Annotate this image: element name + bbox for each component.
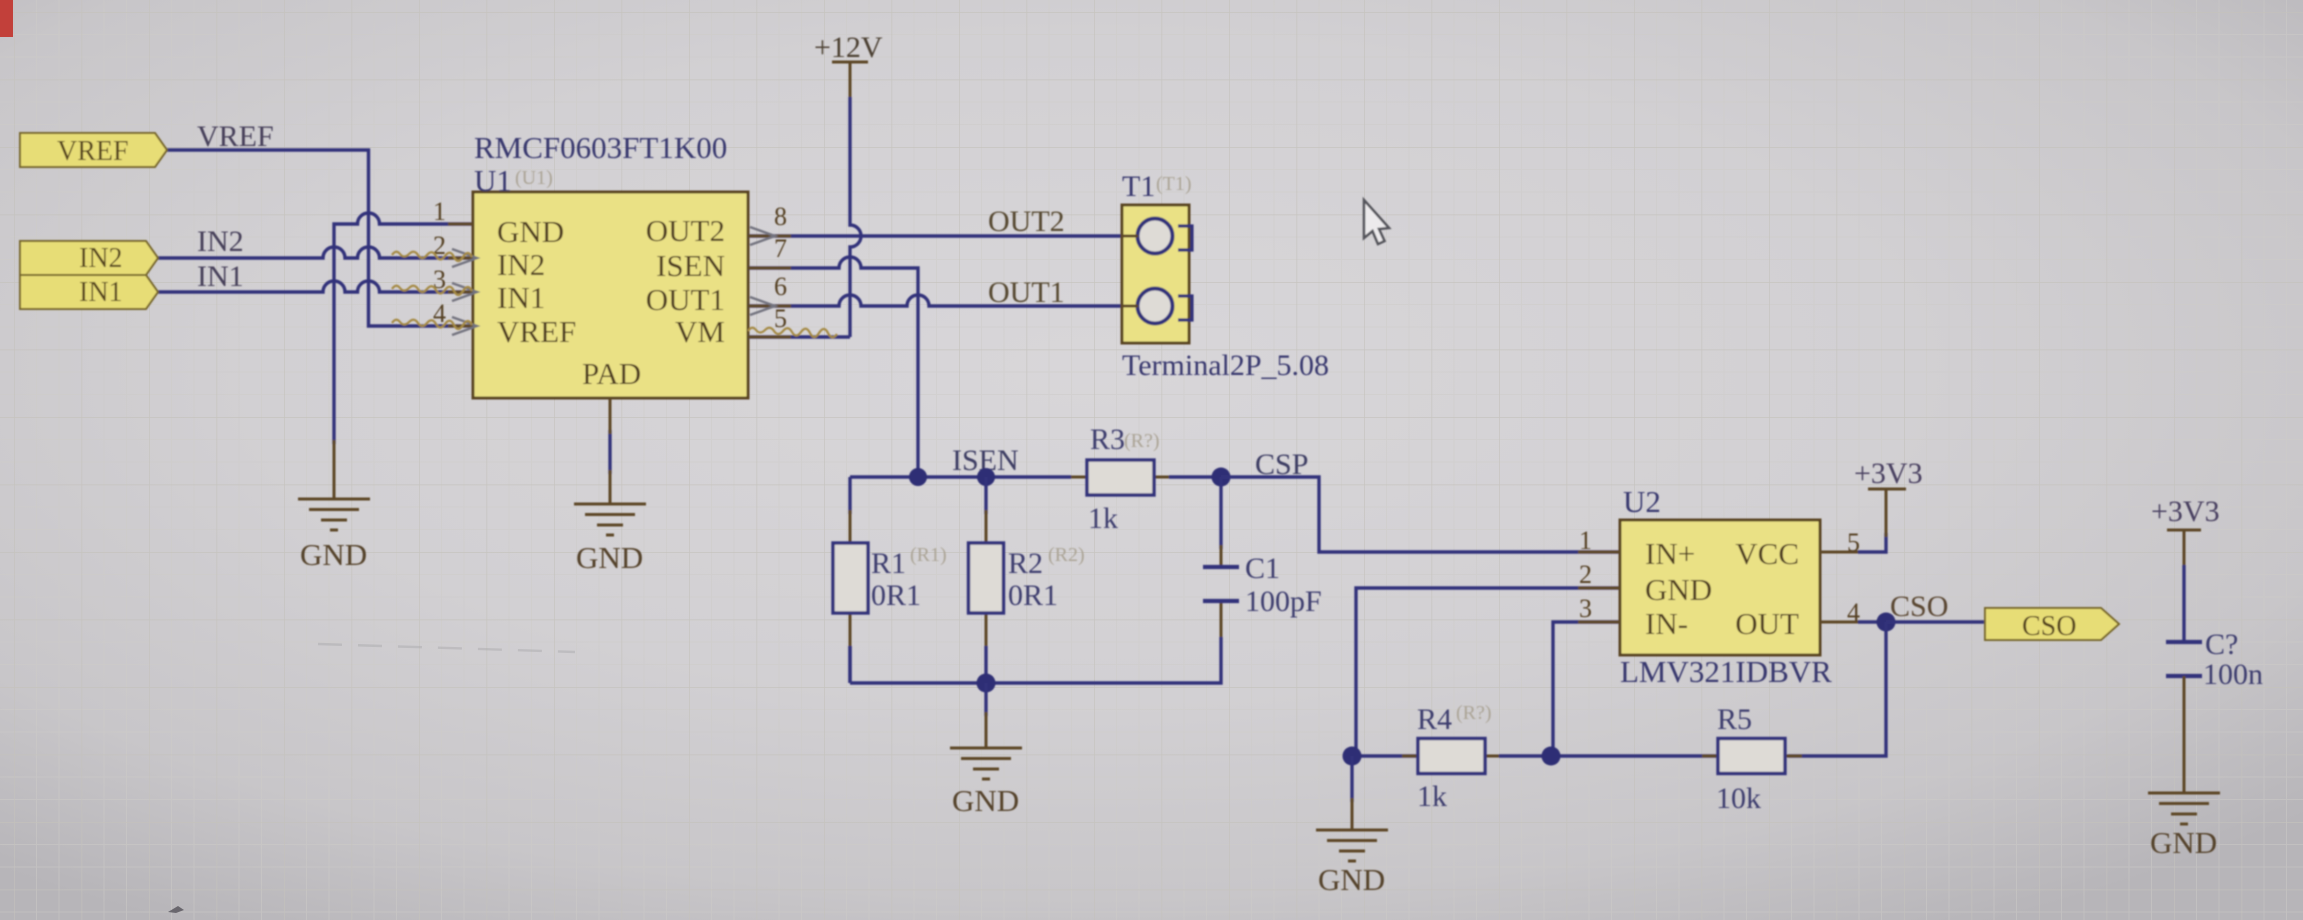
svg-text:R1: R1 bbox=[871, 547, 906, 580]
U1 output arrow pin8 bbox=[750, 227, 775, 245]
U2 pin stubs brown bbox=[1578, 552, 1862, 622]
photo artifact red sliver top-left bbox=[0, 0, 13, 37]
squiggle mark pin5 bbox=[748, 328, 837, 338]
wire +3V3 to C7 bbox=[2182, 565, 2185, 642]
junction dot CSP bbox=[1212, 468, 1231, 487]
port flag VREF bbox=[20, 133, 167, 167]
wire net to U2 pin2 GND bbox=[1356, 588, 1620, 756]
svg-text:GND: GND bbox=[497, 214, 564, 249]
small dark smudge bottom-left bbox=[168, 906, 184, 913]
svg-text:GND: GND bbox=[952, 783, 1019, 818]
svg-text:R2: R2 bbox=[1008, 547, 1043, 580]
svg-text:IN2: IN2 bbox=[79, 243, 123, 274]
svg-text:OUT: OUT bbox=[1735, 606, 1799, 641]
connector T1 Terminal2P_5.08 bbox=[1122, 170, 1329, 382]
junction dot between R4 and R5 bbox=[1542, 747, 1561, 766]
junction dot ground rail at R2 bbox=[977, 674, 996, 693]
svg-text:IN2: IN2 bbox=[497, 247, 545, 282]
wire R2 branch bbox=[984, 477, 987, 683]
U1 input arrow pin2 bbox=[452, 249, 477, 267]
svg-text:OUT2: OUT2 bbox=[988, 205, 1065, 238]
svg-text:C1: C1 bbox=[1245, 552, 1280, 585]
U1 input arrow pin4 bbox=[452, 317, 477, 335]
ground GND below R4 junction bbox=[1316, 798, 1388, 897]
wire ground stem below R4 junction bbox=[1350, 756, 1353, 802]
svg-text:10k: 10k bbox=[1716, 782, 1761, 815]
capacitor C1 100pF bbox=[1203, 545, 1322, 641]
junction dot at R4 left / ground bbox=[1343, 747, 1362, 766]
svg-text:T1: T1 bbox=[1122, 170, 1155, 203]
wire net OUT2: U1 pin8 to T1 pin1 bbox=[748, 234, 1138, 237]
svg-text:0R1: 0R1 bbox=[871, 579, 921, 612]
svg-text:IN2: IN2 bbox=[197, 225, 244, 258]
IC U1 body RMCF0603FT1K00 bbox=[473, 130, 748, 398]
svg-text:GND: GND bbox=[576, 540, 643, 575]
mouse cursor bbox=[1364, 200, 1389, 244]
svg-text:RMCF0603FT1K00: RMCF0603FT1K00 bbox=[474, 130, 727, 165]
wire net IN1 from flag to U1 pin3 (two hops) bbox=[158, 281, 473, 292]
svg-text:U2: U2 bbox=[1623, 484, 1661, 519]
ground GND below R2 rail bbox=[950, 712, 1022, 818]
svg-text:1: 1 bbox=[433, 197, 446, 226]
svg-text:Terminal2P_5.08: Terminal2P_5.08 bbox=[1122, 349, 1329, 382]
svg-text:(R?): (R?) bbox=[1124, 430, 1160, 452]
svg-text:GND: GND bbox=[2150, 825, 2217, 860]
svg-text:IN1: IN1 bbox=[79, 277, 123, 308]
junction dot ISEN at R2 bbox=[977, 468, 995, 486]
svg-text:C?: C? bbox=[2205, 628, 2238, 661]
svg-text:OUT2: OUT2 bbox=[646, 213, 725, 248]
svg-text:7: 7 bbox=[774, 234, 787, 263]
svg-text:0R1: 0R1 bbox=[1008, 579, 1058, 612]
junction dot CSO bbox=[1877, 613, 1896, 632]
capacitor C? 100n bbox=[2166, 628, 2263, 691]
wire U1 PAD to ground bbox=[608, 430, 611, 474]
svg-text:1k: 1k bbox=[1417, 780, 1447, 813]
U1 output arrow pin6 bbox=[750, 297, 775, 315]
resistor R5 10k bbox=[1702, 703, 1802, 815]
svg-text:(U1): (U1) bbox=[515, 167, 553, 189]
wire net ISEN horizontal to R3 bbox=[850, 475, 1071, 478]
svg-text:VREF: VREF bbox=[197, 120, 274, 153]
svg-text:+3V3: +3V3 bbox=[2151, 495, 2220, 528]
wire CSO node to flag bbox=[1886, 620, 1985, 623]
wire CSP down to C1 bbox=[1219, 477, 1222, 549]
wire net CSP to U2 pin1 bbox=[1221, 477, 1620, 552]
resistor R2 0R1 bbox=[969, 510, 1085, 646]
svg-text:GND: GND bbox=[1318, 862, 1385, 897]
junction dot ISEN at riser bbox=[909, 468, 927, 486]
svg-text:R3: R3 bbox=[1090, 423, 1125, 456]
svg-text:IN1: IN1 bbox=[197, 260, 244, 293]
svg-text:3: 3 bbox=[1579, 594, 1592, 623]
svg-text:VM: VM bbox=[675, 314, 725, 349]
svg-text:ISEN: ISEN bbox=[656, 248, 725, 283]
faint dashed guide line bbox=[318, 644, 575, 652]
resistor R1 0R1 bbox=[833, 510, 947, 646]
squiggle mark pin3 bbox=[392, 286, 472, 295]
svg-text:(R2): (R2) bbox=[1048, 544, 1085, 566]
wire U2 pin4 OUT to CSO node bbox=[1858, 620, 1886, 623]
port flag IN2 bbox=[20, 241, 158, 275]
wire net ISEN: U1 pin7 right then down (hop over +12V riser) bbox=[748, 257, 918, 477]
svg-text:1k: 1k bbox=[1088, 502, 1118, 535]
svg-text:2: 2 bbox=[1579, 560, 1592, 589]
svg-text:1: 1 bbox=[1579, 526, 1592, 555]
svg-text:(T1): (T1) bbox=[1156, 173, 1192, 195]
svg-text:U1: U1 bbox=[474, 163, 512, 198]
squiggle mark pin2 bbox=[392, 252, 472, 261]
wire R3 to CSP node bbox=[1169, 475, 1221, 478]
svg-text:OUT1: OUT1 bbox=[646, 282, 725, 317]
svg-text:CSO: CSO bbox=[2022, 611, 2076, 642]
squiggle mark pin4 bbox=[392, 320, 472, 329]
ground GND far right bbox=[2148, 793, 2220, 860]
wire R4 to R5 bbox=[1499, 754, 1722, 757]
svg-text:GND: GND bbox=[1645, 572, 1712, 607]
svg-text:8: 8 bbox=[774, 202, 787, 231]
wire U2 pin5 VCC to +3V3 bbox=[1858, 533, 1886, 552]
svg-text:IN-: IN- bbox=[1645, 606, 1688, 641]
svg-text:PAD: PAD bbox=[582, 356, 641, 391]
wire C1 bottom to ground rail bbox=[850, 637, 1221, 683]
svg-text:(R1): (R1) bbox=[910, 544, 947, 566]
wire GND junction to R4 bbox=[1352, 754, 1422, 757]
power symbol +12V with riser (hop bulge at OUT2 crossing) bbox=[814, 31, 883, 337]
svg-text:100n: 100n bbox=[2203, 658, 2263, 691]
port flag IN1 bbox=[20, 275, 158, 309]
svg-text:+12V: +12V bbox=[814, 31, 883, 64]
svg-text:(R?): (R?) bbox=[1456, 702, 1492, 724]
port flag CSO bbox=[1985, 608, 2119, 642]
svg-text:+3V3: +3V3 bbox=[1854, 457, 1923, 490]
svg-text:R5: R5 bbox=[1717, 703, 1752, 736]
wire/pin C7 bottom to ground bbox=[2183, 676, 2186, 793]
svg-text:VREF: VREF bbox=[57, 136, 129, 167]
resistor R3 1k bbox=[1071, 423, 1173, 535]
wire R1 branch left bbox=[848, 477, 851, 683]
svg-text:IN+: IN+ bbox=[1645, 536, 1695, 571]
resistor R4 1k bbox=[1402, 702, 1503, 813]
power symbol +3V3 above U2 bbox=[1854, 457, 1923, 537]
U1 PAD pin stub bbox=[609, 398, 612, 434]
svg-text:GND: GND bbox=[300, 537, 367, 572]
U1 input arrow pin3 bbox=[452, 283, 477, 301]
U1 right pin stubs brown bbox=[748, 236, 791, 337]
svg-text:CSO: CSO bbox=[1890, 590, 1948, 623]
wire net IN2 from flag to U1 pin2 (two hops) bbox=[158, 247, 473, 258]
wire net +12V: U1 pin5 VM to +12V riser bbox=[748, 335, 850, 338]
IC U2 body LMV321IDBVR bbox=[1620, 484, 1832, 689]
svg-text:R4: R4 bbox=[1417, 703, 1452, 736]
wire U1 pin1 GND down to ground (hop over VREF riser) bbox=[334, 213, 473, 444]
svg-text:LMV321IDBVR: LMV321IDBVR bbox=[1620, 654, 1832, 689]
svg-text:6: 6 bbox=[774, 272, 787, 301]
wire net OUT1: U1 pin6 to T1 pin2 (hops over +12V riser and ISEN riser) bbox=[748, 295, 1138, 306]
ground GND at U1 pin1 net bbox=[298, 440, 370, 572]
svg-text:100pF: 100pF bbox=[1245, 585, 1322, 618]
ground GND at U1 PAD bbox=[574, 470, 646, 575]
power symbol +3V3 far right bbox=[2151, 495, 2220, 569]
svg-text:VCC: VCC bbox=[1735, 536, 1799, 571]
wire CSO node down to R5 bbox=[1788, 622, 1886, 756]
svg-text:OUT1: OUT1 bbox=[988, 276, 1065, 309]
svg-text:IN1: IN1 bbox=[497, 280, 545, 315]
wire ground stem bbox=[984, 683, 987, 716]
wire net to U2 pin3 IN- bbox=[1553, 622, 1620, 756]
U1 pin stubs brown (left) bbox=[448, 224, 473, 326]
wire net VREF from flag to U1 pin4 bbox=[167, 150, 473, 326]
svg-text:VREF: VREF bbox=[497, 314, 576, 349]
